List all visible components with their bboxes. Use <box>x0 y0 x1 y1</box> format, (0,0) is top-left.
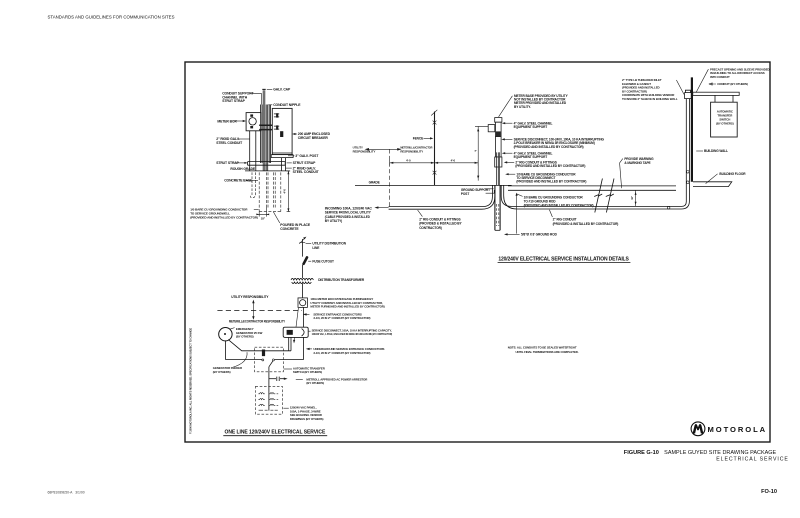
svg-text:EQUIPMENT SUPPORT: EQUIPMENT SUPPORT <box>514 155 548 159</box>
svg-text:(BY OTHERS): (BY OTHERS) <box>213 370 231 374</box>
svg-text:STANDARDS AND GUIDELINES FO: STANDARDS AND GUIDELINES FOR COMMUNICATI… <box>48 14 175 19</box>
svg-text:LINE: LINE <box>312 246 319 250</box>
grounding conductor below grade with hook <box>250 172 255 197</box>
underground conduit right run (lower line with elbows) <box>504 98 690 209</box>
grade line <box>355 184 512 186</box>
ATS contact left <box>262 359 264 361</box>
label: conduit nipple <box>268 104 272 106</box>
panel breaker row 3 <box>258 404 278 405</box>
concrete base dashed bottom <box>259 211 281 213</box>
svg-text:(BY OTHERS): (BY OTHERS) <box>306 381 324 385</box>
arrestor arrow <box>280 378 285 380</box>
svg-text:(PROVIDED AND INSTALLED BY CON: (PROVIDED AND INSTALLED BY CONTRACTOR) <box>515 164 585 168</box>
depth dimension line <box>287 171 291 212</box>
svg-text:(PROVIDED AND INSTALLED BY CON: (PROVIDED AND INSTALLED BY CONTRACTOR) <box>514 145 584 149</box>
horizontal dimension line at meter riser <box>390 160 479 166</box>
concrete base dashed outline left <box>258 172 260 211</box>
generator bottom wire to ATS <box>226 341 263 360</box>
svg-text:EQUIPMENT SUPPORT: EQUIPMENT SUPPORT <box>514 125 548 129</box>
ATS hanger bracket <box>715 95 733 102</box>
generator feeder diagonal wire <box>228 340 291 351</box>
svg-text:ONE LINE 120/240V ELECTRICAL S: ONE LINE 120/240V ELECTRICAL SERVICE <box>225 430 326 436</box>
riser conduit pair to grade <box>497 152 499 185</box>
svg-text:4'-0: 4'-0 <box>283 189 287 194</box>
svg-text:DRAWINGS (BY OTHERS): DRAWINGS (BY OTHERS) <box>290 417 324 421</box>
riser lower section <box>495 157 502 167</box>
generator label leader <box>230 328 235 330</box>
svg-text:CONDUIT (BY OTHERS): CONDUIT (BY OTHERS) <box>717 82 748 86</box>
wire bus fuse to transformer <box>301 265 303 278</box>
svg-text:(PROVIDED AND INSTALLED BY CON: (PROVIDED AND INSTALLED BY CONTRACTOR) <box>190 215 258 219</box>
emergency generator circle <box>219 328 232 341</box>
svg-text:FIGURE G-10: FIGURE G-10 <box>624 450 659 456</box>
incoming service leader arrow <box>376 207 389 209</box>
panel breaker row 4 ticks <box>259 409 278 411</box>
wire bus meter to disconnect <box>302 307 304 327</box>
distribution transformer primary coil <box>291 278 313 279</box>
svg-text:(PROVIDED AND INSTALLED BY CON: (PROVIDED AND INSTALLED BY CONTRACTOR) <box>516 180 586 184</box>
utility distribution line symbol <box>301 239 303 257</box>
svg-text:METER/ILL&/CONTRACTOR RESPONSI: METER/ILL&/CONTRACTOR RESPONSIBILITY <box>229 320 286 324</box>
galvanized cap <box>262 88 265 90</box>
strut strap rail upper <box>248 161 286 163</box>
ground rod dashed <box>497 204 499 226</box>
service disconnect enclosure <box>283 327 308 337</box>
meter base height dimension line <box>475 126 495 180</box>
svg-text:(BY OTHERS): (BY OTHERS) <box>236 335 254 339</box>
arrestor element bars <box>277 377 279 381</box>
underground service conductors label arrow <box>308 348 312 350</box>
svg-text:BY UTILITY.: BY UTILITY. <box>514 105 531 109</box>
kwh meter box <box>298 298 307 308</box>
kwh meter circle <box>300 300 306 306</box>
riser inner conduit dark band <box>498 152 500 185</box>
svg-text:5/8"Ø X 8' GROUND ROD: 5/8"Ø X 8' GROUND ROD <box>521 233 558 237</box>
svg-text:INTO CONDUIT: INTO CONDUIT <box>710 75 730 79</box>
support post below meter box <box>250 131 256 171</box>
depth dimension arrowheads <box>287 171 289 212</box>
break mark left <box>594 179 602 213</box>
svg-text:120/240V ELECTRICAL SERVICE IN: 120/240V ELECTRICAL SERVICE INSTALLATION… <box>498 256 629 262</box>
svg-text:ROUGH GRADE: ROUGH GRADE <box>230 167 256 171</box>
svg-text:3-1/0, #6 IN 2" CONDUIT (BY CO: 3-1/0, #6 IN 2" CONDUIT (BY CONTRACTOR) <box>313 316 370 320</box>
generator center dot <box>224 333 226 335</box>
underground conduit left run (lower line with elbow) <box>389 185 495 209</box>
fence x mark lower <box>433 171 437 175</box>
conduit C2 with galvanized cap (riser to cap) <box>263 90 265 171</box>
svg-text:UNTIL FINAL TERMINATIONS ARE C: UNTIL FINAL TERMINATIONS ARE COMPLETED. <box>516 350 579 354</box>
ground support post <box>495 185 500 230</box>
svg-text:TO INSURE 2" SLEEVE IN BUILDIN: TO INSURE 2" SLEEVE IN BUILDING WALL <box>622 97 678 101</box>
svg-text:BUILDING FLOOR: BUILDING FLOOR <box>719 172 746 176</box>
svg-text:120/240 VAC, 1-POLE, ENCLOSED: 120/240 VAC, 1-POLE, ENCLOSED IN NEMA 3R… <box>312 332 393 336</box>
distribution transformer secondary coil <box>292 282 312 283</box>
svg-text:ELECTRICAL SERVICE: ELECTRICAL SERVICE <box>716 457 789 463</box>
svg-text:CIRCUIT BREAKER: CIRCUIT BREAKER <box>298 136 329 140</box>
meter socket dark base band <box>496 131 501 136</box>
disconnect breaker element <box>287 330 293 335</box>
conduit coupling circle riser upper <box>687 171 690 174</box>
conduit C3 <box>266 105 268 172</box>
svg-text:& MARKING TAPE: & MARKING TAPE <box>624 161 650 165</box>
MOTOROLA logo <box>691 422 766 436</box>
meter box terminal top <box>250 114 253 116</box>
rough grade line <box>245 170 290 172</box>
underground conduit left run (upper line with elbow up) <box>389 185 493 206</box>
meter base side box <box>488 125 495 132</box>
breaker box base plate <box>271 153 293 158</box>
strut channel crossing conduits <box>259 125 272 129</box>
svg-text:RESPONSIBILITY: RESPONSIBILITY <box>353 150 376 154</box>
svg-text:4'-0: 4'-0 <box>451 158 456 162</box>
svg-text:STRUT STRAP: STRUT STRAP <box>293 161 316 165</box>
bus disconnect down to ATS right side <box>275 337 304 359</box>
drawing sheet border frame <box>185 62 770 442</box>
svg-text:4'-0: 4'-0 <box>406 158 411 162</box>
underground conduit right run (upper line with elbows) <box>501 98 686 207</box>
meter box terminal bottom <box>250 126 253 128</box>
svg-text:BY UTILITY): BY UTILITY) <box>325 219 342 223</box>
dimension arrowheads <box>390 162 479 164</box>
wire bus transformer to meter <box>301 283 303 298</box>
width dimension line 18in <box>256 208 268 217</box>
meter box <box>246 113 261 131</box>
ATS contact right <box>272 359 274 361</box>
concrete base dashed outline right <box>280 172 282 211</box>
svg-text:CONDUIT NIPPLE: CONDUIT NIPPLE <box>273 103 301 107</box>
warning tape line lower <box>508 189 676 191</box>
warning tape depth dimension <box>635 190 637 206</box>
svg-text:STRUT STRAP: STRUT STRAP <box>222 99 245 103</box>
conduit entry fitting lower on breaker <box>274 126 279 129</box>
LB fitting cap <box>685 90 690 92</box>
post between breaker and strut <box>282 158 286 171</box>
svg-text:CONCRETE: CONCRETE <box>280 227 299 231</box>
responsibility arrow line <box>367 148 400 150</box>
building wall <box>691 77 693 181</box>
fence x mark upper <box>433 121 437 125</box>
general note <box>508 346 579 354</box>
svg-text:FO-10: FO-10 <box>761 489 777 495</box>
conduit C4 <box>269 105 270 164</box>
svg-text:SWITCH (BY OTHERS): SWITCH (BY OTHERS) <box>293 370 322 374</box>
buried conduit dashed pair <box>266 172 275 207</box>
break mark right <box>606 179 614 213</box>
meter base cap <box>495 118 502 123</box>
figure caption <box>624 450 789 495</box>
svg-text:SAMPLE GUYED SITE DRAWING PACK: SAMPLE GUYED SITE DRAWING PACKAGE <box>664 450 777 456</box>
leader meter to conduit arrow <box>294 308 298 341</box>
property boundary dashed line <box>389 149 391 207</box>
AC power arrestor branch <box>269 378 276 380</box>
svg-text:POST: POST <box>461 192 469 196</box>
panel breaker row 1 <box>258 393 278 394</box>
svg-text:CONTRACTOR): CONTRACTOR) <box>419 226 442 230</box>
svg-text:RESPONSIBILITY: RESPONSIBILITY <box>400 150 423 154</box>
ATS switch blade <box>269 361 273 367</box>
LB fitting at wall <box>685 93 692 99</box>
service disconnect riser body <box>496 137 502 157</box>
label: galv cap <box>267 88 273 90</box>
svg-text:METER FURNISHED AND INSTALLED: METER FURNISHED AND INSTALLED BY CONTRAC… <box>310 305 384 309</box>
breaker handle <box>280 131 283 137</box>
svg-text:3" GALV. POST: 3" GALV. POST <box>295 154 319 158</box>
svg-text:3-1/0, #6 IN 2" CONDUIT (BY CO: 3-1/0, #6 IN 2" CONDUIT (BY CONTRACTOR) <box>313 351 370 355</box>
disconnect contact arc <box>302 329 305 336</box>
building floor slab <box>693 182 732 187</box>
meter face circle <box>249 118 256 125</box>
panel bus vertical <box>268 386 270 410</box>
fence top tick <box>431 110 437 116</box>
svg-text:(PROVIDED & INSTALLED BY CONTR: (PROVIDED & INSTALLED BY CONTRACTOR) <box>553 222 619 226</box>
strut strap rail lower <box>248 162 286 166</box>
automatic transfer switch dashed box <box>255 347 284 372</box>
responsibility double arrow <box>252 301 254 319</box>
fence line <box>434 112 436 186</box>
svg-text:UTILITY RESPONSIBILITY: UTILITY RESPONSIBILITY <box>231 295 269 299</box>
svg-text:METER BOX: METER BOX <box>217 119 237 123</box>
svg-text:STEEL CONDUIT: STEEL CONDUIT <box>293 170 320 174</box>
panel breaker row 2 <box>258 398 278 399</box>
svg-text:68P81089E50-A 3/1/00: 68P81089E50-A 3/1/00 <box>48 491 85 495</box>
svg-text:© 2000 MOTOROLA INC. ALL RIGHT: © 2000 MOTOROLA INC. ALL RIGHTS RESERVED… <box>189 328 193 434</box>
svg-text:(BY OTHERS): (BY OTHERS) <box>716 121 734 125</box>
meter base body <box>496 122 502 136</box>
fuse cutout <box>304 257 307 263</box>
ground support post bottom cap <box>495 229 500 231</box>
svg-text:STEEL CONDUIT: STEEL CONDUIT <box>216 141 243 145</box>
svg-text:BUILDING WALL: BUILDING WALL <box>704 149 728 153</box>
automatic transfer switch box (wall mounted) <box>711 102 738 137</box>
svg-text:DISTRIBUTION TRANSFORMER: DISTRIBUTION TRANSFORMER <box>318 278 365 282</box>
disconnect to feeder wire pair <box>289 337 291 350</box>
equipment shelf beam <box>693 92 739 95</box>
ATS output wire <box>268 367 270 387</box>
conduit coupling circle left <box>667 206 670 209</box>
svg-text:FENCE: FENCE <box>413 137 423 141</box>
conduit C1 <box>261 105 262 164</box>
conduit entry fitting upper on breaker <box>274 114 279 117</box>
warning tape line upper <box>508 185 676 187</box>
panelboard dashed box <box>255 386 282 414</box>
svg-text:GALV. CAP: GALV. CAP <box>273 88 291 92</box>
ATS neutral block <box>262 350 265 357</box>
responsibility dashed boundary line <box>217 310 302 312</box>
svg-text:(PROVIDED AND INSTALLED BY CON: (PROVIDED AND INSTALLED BY CONTRACTOR) <box>524 204 594 208</box>
enclosed circuit breaker box <box>272 108 292 154</box>
conduit coupling circle riser <box>687 181 690 184</box>
svg-text:FUSE CUTOUT: FUSE CUTOUT <box>312 259 334 263</box>
svg-text:GRADE: GRADE <box>369 180 380 184</box>
